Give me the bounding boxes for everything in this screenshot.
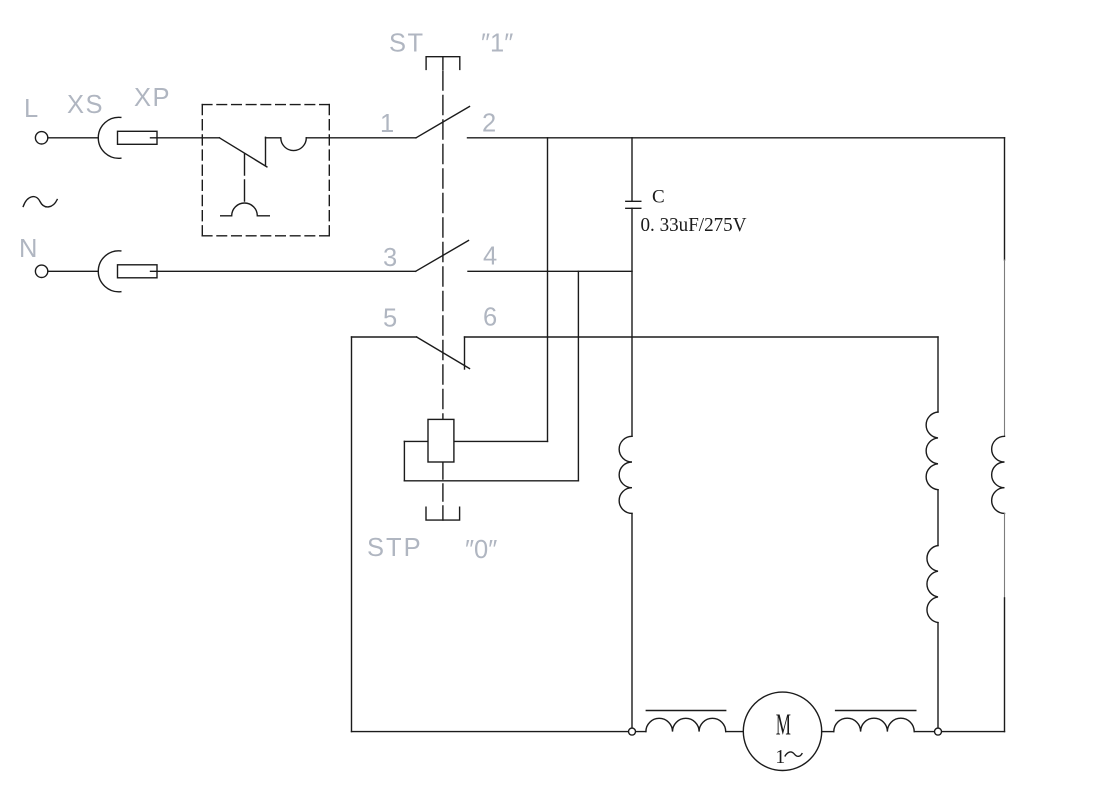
svg-text:2: 2 xyxy=(482,110,496,138)
svg-text:STP: STP xyxy=(367,534,423,562)
wire to bottom rail xyxy=(937,623,939,732)
interlock dashed enclosure xyxy=(202,104,329,106)
svg-text:L: L xyxy=(24,95,38,123)
mechanical link dashed line (lower) xyxy=(442,462,444,520)
svg-text:1: 1 xyxy=(775,746,785,768)
stator winding right xyxy=(834,718,914,731)
wire XP pin to filter box xyxy=(151,137,220,139)
svg-text:″0″: ″0″ xyxy=(465,536,497,564)
right rail upper xyxy=(1004,138,1006,260)
pushbutton STP actuator xyxy=(426,507,460,520)
wire 1 (box to contact 1) xyxy=(306,137,416,139)
wire coil loop bottom xyxy=(404,480,578,482)
svg-text:″1″: ″1″ xyxy=(481,30,513,58)
wire coil right lead xyxy=(454,440,548,442)
wire drop at x=547 xyxy=(547,138,549,442)
capacitor C top lead xyxy=(631,138,633,202)
svg-text:N: N xyxy=(19,235,37,263)
wire coil left lead xyxy=(404,440,428,442)
svg-text:5: 5 xyxy=(383,305,397,333)
winding A on x=938 xyxy=(926,412,938,490)
wire drop at x=578 xyxy=(577,271,579,481)
svg-text:XP: XP xyxy=(134,84,171,112)
wire L to socket xyxy=(48,137,98,139)
interlock cam follower xyxy=(221,203,270,216)
ST actuator stem xyxy=(442,57,444,70)
mechanical link dashed line (upper) xyxy=(442,71,444,419)
wire 5 xyxy=(352,336,417,338)
svg-text:C: C xyxy=(652,187,665,208)
wire 3 (N to contact 3) xyxy=(151,270,416,272)
bottom rail segment 1 xyxy=(352,731,646,733)
svg-text:6: 6 xyxy=(483,304,497,332)
wire 4 xyxy=(468,270,632,272)
motor M circle xyxy=(743,692,821,770)
contact 3-4 blade xyxy=(416,241,469,272)
motor phase tilde xyxy=(785,752,803,757)
pushbutton ST actuator xyxy=(426,57,460,70)
socket XS (L pole) xyxy=(98,117,121,158)
capacitor C plates xyxy=(626,200,641,202)
wire 6 drop at x=938 xyxy=(937,337,939,412)
svg-text:4: 4 xyxy=(483,243,497,271)
left enclosure wire down xyxy=(351,337,353,732)
right rail lower xyxy=(1004,598,1006,732)
svg-text:ST: ST xyxy=(389,30,425,58)
right rail lower (thin segment) xyxy=(1004,513,1006,598)
right rail upper (thin segment) xyxy=(1004,260,1006,436)
terminal N xyxy=(35,265,47,277)
AC symbol ~ xyxy=(23,197,57,207)
inductor winding right rail xyxy=(992,436,1005,513)
wire to bottom rail xyxy=(631,513,633,731)
bottom rail segment 2 xyxy=(726,731,744,733)
junction node at (938,732) xyxy=(935,728,942,735)
terminal L xyxy=(35,132,47,144)
wire N to socket xyxy=(48,270,98,272)
svg-text:M: M xyxy=(776,707,791,742)
wire between windings xyxy=(937,490,939,546)
contact 1-2 blade xyxy=(416,107,470,138)
socket XS (N pole) xyxy=(98,251,121,292)
svg-text:3: 3 xyxy=(383,244,397,272)
interlock actuator dashed link xyxy=(244,154,246,203)
inductor winding on capacitor branch xyxy=(619,436,632,513)
stator winding left core xyxy=(646,710,725,712)
bottom rail segment 4 xyxy=(914,731,1004,733)
bottom rail segment 3 xyxy=(822,731,834,733)
interlock fixed contact bar xyxy=(265,137,267,165)
wire 2 (top rail) xyxy=(468,137,1005,139)
wire 6 xyxy=(465,336,939,338)
stator winding left xyxy=(646,718,726,731)
contact 5-6 blade xyxy=(417,337,470,369)
wire to socket contact xyxy=(266,137,281,139)
capacitor C bottom lead xyxy=(631,208,633,436)
plug XP (L pole) xyxy=(118,131,158,144)
interlock switch blade xyxy=(219,138,267,167)
svg-text:0. 33uF/275V: 0. 33uF/275V xyxy=(641,215,747,236)
winding B on x=938 xyxy=(927,546,938,623)
stator winding right core xyxy=(836,710,916,712)
junction node at (632,732) xyxy=(629,728,636,735)
wire coil loop left xyxy=(403,441,405,480)
socket contact arc xyxy=(281,138,307,151)
plug XP (N pole) xyxy=(118,265,158,278)
solenoid coil K xyxy=(428,419,454,462)
svg-text:1: 1 xyxy=(380,110,394,138)
contact 6 fixed bar xyxy=(464,337,466,369)
svg-text:XS: XS xyxy=(67,91,104,119)
